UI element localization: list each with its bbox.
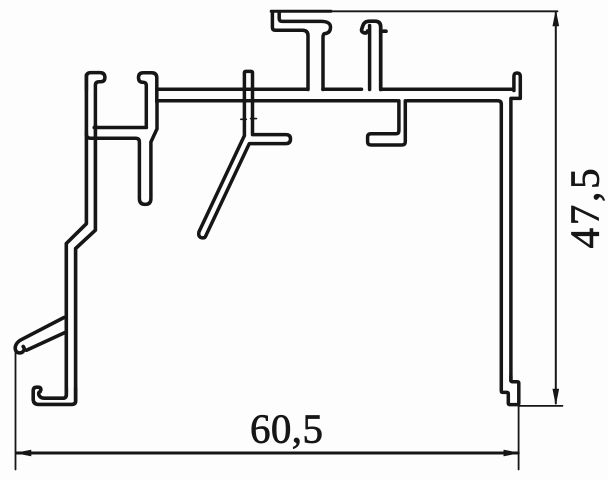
- left inner wall with jog: [76, 125, 96, 400]
- main rail top edge (mid span): [323, 87, 362, 91]
- left outer wall with jog: [66, 75, 86, 395]
- arrow up (47,5 top): [553, 11, 559, 26]
- left U-channel: inner bottom face: [94, 126, 146, 130]
- profile top plate: top face: [271, 10, 331, 13]
- drip nose upper diagonal with curled tip: [15, 318, 64, 353]
- main rail top edge (right span): [382, 87, 513, 91]
- arrow right (60,5): [504, 450, 519, 456]
- scan nick on centre wall right line: [251, 118, 257, 120]
- main rail bottom edge (left span): [158, 99, 397, 103]
- drip nose lower diagonal: [27, 333, 66, 351]
- left U-channel: left wall cap and inner line: [86, 73, 105, 126]
- top extension line: [271, 10, 558, 12]
- bottom dimension line 60,5: [17, 452, 519, 455]
- arrow left (60,5): [16, 450, 31, 456]
- bottom hook outer: bottom face, left curl and finger tip: [33, 387, 75, 404]
- main rail top edge (left span): [157, 87, 307, 91]
- svg-text:60,5: 60,5: [250, 406, 323, 452]
- right dimension line 47,5: [555, 12, 557, 404]
- main rail bottom edge (right span), right wall left line and bottom foot: [407, 101, 519, 405]
- extension line right vertical (to 60,5): [518, 407, 520, 470]
- extension line left vertical (to 60,5): [15, 348, 17, 470]
- svg-text:47,5: 47,5: [562, 166, 608, 249]
- profile top plate: outer left edge, lower face and glazing-stem left wall: [272, 12, 308, 90]
- extension line bottom-right horizontal: [520, 405, 563, 407]
- profile top plate: inner curl, mid face and glazing-stem right wall: [279, 13, 330, 90]
- glazing bead hook: right nub: [381, 29, 386, 33]
- left U-channel outer bottom face, lower finger with round tip, chamfer up to rail: [86, 101, 157, 205]
- glazing bead hook stem left line: [368, 26, 372, 90]
- bottom hook inner face and inner curl: [39, 388, 67, 398]
- centre T-wall stub, shelf and diagonal brace: [199, 71, 291, 238]
- right wall top lip and right line: [511, 73, 520, 381]
- glazing bead hook: right line and curled cap: [362, 21, 381, 89]
- arrow down (47,5 bottom): [553, 389, 559, 404]
- left U-channel: right wall cap: [139, 73, 157, 126]
- scan nick on centre wall left line: [241, 118, 247, 120]
- hanging L-foot under rail: [368, 101, 406, 145]
